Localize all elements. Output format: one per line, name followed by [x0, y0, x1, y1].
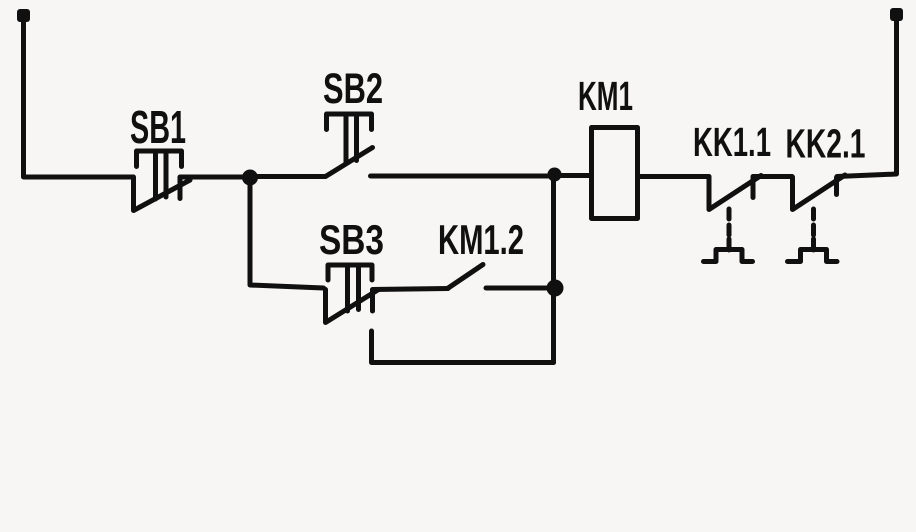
wire SB3 to KM1.2	[373, 289, 449, 290]
auxiliary contact KM1.2 (NO seal-in)	[448, 265, 484, 289]
wire bottom bypass loop	[372, 331, 554, 363]
wire left supply drop	[24, 20, 134, 177]
wire KK1.1 to KK2.1	[753, 174, 792, 179]
svg-text:SB1: SB1	[130, 101, 186, 153]
svg-text:KK1.1: KK1.1	[693, 119, 771, 165]
pushbutton SB2 (NO start button)	[326, 114, 373, 177]
svg-text:KM1: KM1	[578, 73, 633, 119]
wire coil KM1 to KK1.1	[638, 174, 709, 179]
node C junction dot	[547, 280, 564, 297]
wire SB1 to node A	[180, 175, 244, 180]
wire node C vertical riser	[551, 176, 556, 363]
svg-text:KK2.1: KK2.1	[786, 121, 866, 167]
svg-text:SB2: SB2	[323, 65, 383, 113]
svg-text:SB3: SB3	[319, 216, 384, 263]
node B junction dot	[548, 168, 562, 182]
wire KK2.1 to right supply drop	[837, 20, 897, 177]
thermal contact KK2.1 (NC)	[788, 175, 846, 262]
wire node A down to SB3	[250, 177, 324, 288]
wire node B to coil KM1	[561, 173, 591, 178]
thermal contact KK1.1 (NC)	[704, 176, 762, 262]
wire SB2 to node B	[371, 174, 549, 179]
wire node A to SB2	[256, 174, 325, 179]
pushbutton SB3 (NC jog button)	[326, 265, 379, 323]
svg-text:KM1.2: KM1.2	[438, 216, 524, 263]
node A junction dot	[242, 170, 258, 186]
terminal right	[890, 8, 903, 21]
contactor coil KM1	[592, 128, 638, 219]
terminal left	[17, 9, 30, 22]
wire KM1.2 to node C	[486, 286, 547, 291]
pushbutton SB1 (NC stop button)	[134, 151, 191, 211]
